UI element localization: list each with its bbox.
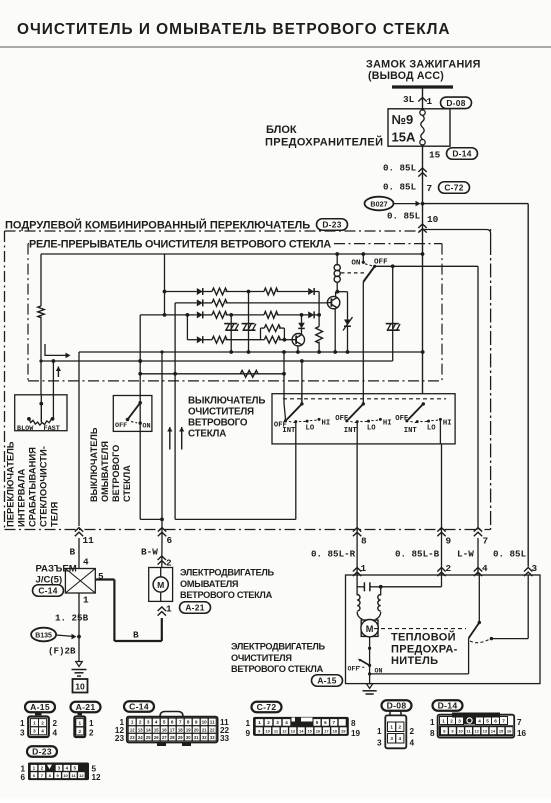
pin 1 JC wire [78, 593, 80, 662]
svg-text:16: 16 [162, 727, 167, 732]
svg-text:LO: LO [306, 425, 315, 433]
svg-text:FAST: FAST [44, 425, 60, 433]
svg-text:13: 13 [483, 729, 488, 734]
svg-text:D-23: D-23 [322, 220, 341, 230]
pole2 INT output wire to pin8 [356, 422, 358, 444]
svg-text:ЭЛЕКТРОДВИГАТЕЛЬ: ЭЛЕКТРОДВИГАТЕЛЬ [231, 642, 326, 652]
svg-text:15: 15 [429, 150, 441, 161]
svg-text:B: B [133, 630, 139, 641]
svg-text:1. 25B: 1. 25B [55, 613, 89, 624]
svg-text:D-23: D-23 [32, 747, 52, 757]
svg-text:A-21: A-21 [76, 702, 96, 712]
wire relay common down to pole2 [362, 282, 364, 404]
connector label D-23 header [317, 219, 348, 231]
svg-text:4: 4 [155, 720, 158, 725]
washer motor feed wire [161, 538, 163, 568]
row2 diode D3 [175, 302, 197, 304]
svg-text:17: 17 [324, 728, 329, 733]
svg-text:1: 1 [33, 720, 36, 725]
svg-text:5: 5 [316, 720, 319, 725]
arrow B135 to ground wire [56, 635, 73, 636]
svg-text:7: 7 [427, 183, 433, 194]
svg-text:2: 2 [53, 719, 58, 728]
svg-text:OFF: OFF [395, 415, 408, 423]
svg-text:12: 12 [92, 773, 102, 782]
row2 resistor R3 [203, 302, 212, 304]
svg-text:B135: B135 [35, 633, 52, 640]
title underline rule [0, 46, 551, 48]
svg-text:LO: LO [427, 425, 436, 433]
connector crossing chevrons pin10 [418, 224, 426, 228]
svg-text:10: 10 [202, 720, 208, 725]
svg-text:ВЫКЛЮЧАТЕЛЬ: ВЫКЛЮЧАТЕЛЬ [188, 396, 265, 407]
svg-text:33: 33 [210, 735, 215, 740]
svg-text:17: 17 [170, 727, 175, 732]
svg-text:L-W: L-W [457, 549, 474, 560]
wiper switch box [272, 394, 455, 444]
svg-text:32: 32 [202, 735, 207, 740]
svg-text:1: 1 [430, 718, 435, 727]
wiper switch pole 2 [362, 402, 365, 405]
svg-text:0. 85L-B: 0. 85L-B [395, 549, 440, 560]
thyristor ZD1 [347, 292, 349, 320]
svg-text:0. 85L: 0. 85L [493, 549, 527, 560]
svg-text:1: 1 [83, 595, 89, 606]
washer switch box [113, 396, 152, 432]
svg-text:8: 8 [430, 729, 435, 738]
wire branch right to wiper motor pin3 [423, 203, 529, 205]
svg-text:ОЧИСТИТЕЛЬ И ОМЫВАТЕЛЬ ВЕТРОВО: ОЧИСТИТЕЛЬ И ОМЫВАТЕЛЬ ВЕТРОВОГО СТЕКЛА [17, 21, 451, 38]
svg-text:10: 10 [75, 682, 85, 692]
svg-text:1: 1 [361, 563, 367, 574]
combination switch dash-dot box [5, 230, 423, 232]
svg-text:ОМЫВАТЕЛЯ: ОМЫВАТЕЛЯ [100, 441, 110, 502]
svg-text:15: 15 [307, 728, 312, 733]
wire left edge with resistor [40, 254, 42, 306]
svg-text:2: 2 [446, 563, 452, 574]
svg-text:6: 6 [20, 773, 25, 782]
row3-row4 vertical link [186, 315, 188, 340]
svg-text:OFF: OFF [374, 259, 388, 267]
svg-text:HI: HI [322, 419, 331, 427]
svg-text:ЭЛЕКТРОДВИГАТЕЛЬ: ЭЛЕКТРОДВИГАТЕЛЬ [180, 568, 275, 578]
svg-text:15А: 15А [392, 130, 416, 145]
resistor R6 vertical [316, 327, 323, 344]
svg-text:7: 7 [483, 536, 489, 547]
svg-text:0. 85L-R: 0. 85L-R [311, 549, 356, 560]
relay coil L1 [336, 254, 338, 266]
svg-text:1: 1 [427, 96, 433, 107]
svg-text:D-14: D-14 [438, 701, 458, 711]
wiper motor M [361, 620, 378, 636]
svg-text:5: 5 [163, 720, 166, 725]
wire ignition to fuse [422, 89, 424, 109]
svg-text:16: 16 [316, 728, 321, 733]
svg-text:ТЕЛЯ: ТЕЛЯ [49, 501, 60, 527]
svg-text:0. 85L: 0. 85L [383, 163, 417, 174]
svg-text:D-08: D-08 [387, 701, 407, 711]
svg-text:ВЫКЛЮЧАТЕЛЬ: ВЫКЛЮЧАТЕЛЬ [89, 427, 99, 502]
svg-text:РЕЛЕ-ПРЕРЫВАТЕЛЬ ОЧИСТИТЕЛЯ ВЕ: РЕЛЕ-ПРЕРЫВАТЕЛЬ ОЧИСТИТЕЛЯ ВЕТРОВОГО СТ… [29, 239, 331, 251]
svg-text:ВЕТРОВОГО СТЕКЛА: ВЕТРОВОГО СТЕКЛА [231, 664, 324, 674]
svg-text:19: 19 [186, 727, 191, 732]
svg-text:BLOW: BLOW [17, 425, 34, 433]
svg-text:3: 3 [458, 718, 461, 723]
INT loop wire [174, 303, 176, 520]
svg-text:СТЕКЛА: СТЕКЛА [122, 465, 132, 502]
svg-text:ВЕТРОВОГО СТЕКЛА: ВЕТРОВОГО СТЕКЛА [180, 590, 273, 600]
circuit box bottom ground bus [79, 351, 423, 353]
connector label D-14 mid [447, 148, 478, 160]
svg-text:3: 3 [147, 720, 150, 725]
parallel resistor pair R8 R9 [260, 328, 262, 340]
wire pin6 down [161, 519, 163, 538]
svg-text:4: 4 [285, 720, 288, 725]
svg-text:2: 2 [139, 720, 142, 725]
pin 9 crossing [437, 528, 445, 532]
svg-text:ОЧИСТИТЕЛЯ: ОЧИСТИТЕЛЯ [231, 653, 292, 663]
arrow B027 to junction [394, 203, 418, 205]
svg-text:ВЕТРОВОГО: ВЕТРОВОГО [188, 418, 248, 429]
capacitor C1 hatched [230, 315, 232, 352]
thermal arm to brush wire [468, 638, 470, 674]
svg-text:9: 9 [446, 536, 452, 547]
svg-text:ПОДРУЛЕВОЙ КОМБИНИРОВАННЫЙ ПЕР: ПОДРУЛЕВОЙ КОМБИНИРОВАННЫЙ ПЕРЕКЛЮЧАТЕЛЬ [5, 219, 310, 232]
junction dot main feed [421, 202, 425, 206]
svg-text:22: 22 [210, 727, 215, 732]
svg-text:9: 9 [195, 720, 198, 725]
svg-text:A-15: A-15 [30, 702, 50, 712]
svg-text:J/C(5): J/C(5) [36, 575, 63, 586]
svg-text:4: 4 [53, 729, 58, 738]
wire pole1 pivot feed [301, 361, 303, 404]
connector label C-72 mid [439, 182, 470, 194]
row1 resistor R1 [203, 291, 212, 293]
relay contact arm [363, 266, 374, 282]
washer switch arm [138, 401, 142, 405]
pin 1 connector crossing [418, 98, 426, 102]
svg-text:1: 1 [377, 727, 382, 736]
wire pin7 to motor pin4 [477, 538, 479, 575]
connector label D-08 top [441, 97, 472, 109]
svg-text:6: 6 [167, 535, 173, 546]
wiper switch gang dashed link [283, 398, 446, 400]
svg-text:4: 4 [66, 766, 69, 771]
svg-text:OFF: OFF [115, 422, 127, 430]
motor to park switch wire [369, 637, 371, 684]
svg-text:16: 16 [507, 729, 512, 734]
svg-text:ПРЕДОХРАНИТЕЛЕЙ: ПРЕДОХРАНИТЕЛЕЙ [265, 136, 383, 149]
svg-text:7: 7 [517, 718, 522, 727]
pot terminal2 wire [52, 361, 54, 395]
svg-text:B-W: B-W [141, 547, 158, 558]
svg-text:23: 23 [115, 734, 125, 743]
capacitor C2 hatched [248, 292, 250, 353]
svg-text:7: 7 [333, 720, 336, 725]
diode D7 above Q2 [301, 315, 303, 323]
svg-text:C-14: C-14 [129, 702, 149, 712]
wire INT right vertical [283, 352, 285, 394]
svg-text:3: 3 [20, 729, 25, 738]
svg-text:2: 2 [41, 720, 44, 725]
motor capacitor [356, 575, 358, 596]
wire right to motor pin3 [524, 568, 532, 572]
svg-text:14: 14 [491, 729, 496, 734]
svg-text:11: 11 [210, 720, 215, 725]
fuse element [420, 110, 425, 115]
transistor Q2 [292, 334, 304, 346]
direction arrow a [169, 427, 171, 450]
svg-text:ON: ON [351, 260, 361, 268]
row1 diode D1 [165, 291, 197, 293]
wire row feed vertical x164 [164, 254, 166, 315]
connector label A-15 text [312, 675, 343, 687]
svg-text:2: 2 [166, 558, 172, 569]
wire fuse down to junction [422, 146, 424, 231]
svg-text:1: 1 [166, 604, 172, 615]
svg-text:INT: INT [404, 427, 418, 435]
connector graphic D-23 [27, 746, 57, 757]
svg-text:(ВЫВОД АСС): (ВЫВОД АСС) [368, 70, 444, 82]
washer feed vertical from row3 [139, 315, 141, 403]
motor ground [366, 684, 373, 689]
svg-text:ПЕРЕКЛЮЧАТЕЛЬ: ПЕРЕКЛЮЧАТЕЛЬ [5, 441, 16, 527]
svg-text:C-72: C-72 [257, 702, 277, 712]
connector crossing chevrons a [418, 168, 426, 172]
wire pair to transistor Q2 base [284, 339, 292, 341]
svg-text:4: 4 [478, 718, 481, 723]
svg-text:A-21: A-21 [185, 603, 204, 613]
svg-text:20: 20 [194, 727, 199, 732]
washer ON output wire [139, 423, 141, 519]
svg-text:10: 10 [427, 214, 439, 225]
svg-text:8: 8 [187, 720, 190, 725]
svg-text:5: 5 [486, 718, 489, 723]
svg-text:СРАБАТЫВАНИЯ: СРАБАТЫВАНИЯ [27, 447, 38, 527]
svg-text:13: 13 [138, 727, 143, 732]
svg-text:6: 6 [324, 720, 327, 725]
interval switch box [15, 395, 67, 431]
row3 resistor R4 [203, 314, 212, 316]
svg-text:РАЗЪЕМ: РАЗЪЕМ [36, 564, 77, 575]
svg-text:1: 1 [33, 766, 36, 771]
svg-text:27: 27 [162, 735, 167, 740]
svg-text:HI: HI [383, 419, 392, 427]
svg-text:11: 11 [83, 535, 95, 546]
pin 7 crossing [474, 528, 482, 532]
pole1 INT output wire [295, 422, 297, 444]
motor coil left [357, 595, 360, 612]
svg-text:3: 3 [276, 720, 279, 725]
thermal link dashed to motor [374, 628, 466, 630]
svg-text:ИНТЕРВАЛА: ИНТЕРВАЛА [16, 468, 27, 527]
svg-text:INT: INT [282, 427, 296, 435]
svg-text:12: 12 [130, 727, 135, 732]
svg-text:OFF: OFF [348, 666, 360, 673]
svg-text:D-08: D-08 [446, 98, 465, 108]
svg-text:8: 8 [361, 536, 367, 547]
pot track zigzag [27, 417, 31, 421]
svg-text:1: 1 [245, 719, 250, 728]
pot wiper arrow [45, 344, 66, 355]
svg-text:7: 7 [179, 720, 182, 725]
wire row1-row3 junction down to resistor [318, 292, 320, 327]
svg-text:НИТЕЛЬ: НИТЕЛЬ [391, 655, 438, 667]
Q1 collector wire [335, 292, 337, 297]
svg-text:D-14: D-14 [452, 149, 471, 159]
svg-text:1: 1 [131, 720, 134, 725]
connector label A-21 text [180, 602, 211, 614]
svg-text:31: 31 [194, 735, 199, 740]
wire pin8 to motor pin1 [356, 538, 358, 575]
svg-text:14: 14 [146, 727, 151, 732]
direction arrow b [181, 427, 183, 450]
svg-text:33: 33 [220, 734, 230, 743]
svg-text:10: 10 [265, 728, 270, 733]
svg-text:М: М [366, 624, 374, 634]
fuse box №9 15A [388, 109, 450, 146]
svg-text:3: 3 [33, 729, 36, 734]
row2 wire to transistor base [226, 302, 328, 304]
svg-text:СТЕКЛА: СТЕКЛА [188, 429, 226, 440]
svg-text:16: 16 [517, 729, 527, 738]
svg-text:29: 29 [178, 735, 183, 740]
svg-text:B: B [70, 547, 76, 558]
wiper switch pole 1 [301, 394, 303, 404]
thermal breaker switch [478, 575, 480, 623]
svg-text:№9: №9 [392, 112, 414, 127]
wire pin9 to motor pin2 [441, 538, 443, 575]
svg-text:ВЕТРОВОГО: ВЕТРОВОГО [111, 445, 121, 502]
pin11 ground wire [78, 352, 80, 526]
svg-text:30: 30 [186, 735, 191, 740]
connector graphic D-08 [382, 700, 412, 711]
connector graphic C-14 [124, 701, 154, 712]
relay contact ON wire [362, 254, 364, 262]
svg-text:INT: INT [344, 427, 358, 435]
svg-text:М: М [157, 580, 164, 590]
svg-text:8: 8 [351, 719, 356, 728]
row3 resistor R5 [264, 312, 278, 319]
capacitor C3 hatched on OFF branch [392, 266, 394, 361]
motor coil right [380, 587, 382, 596]
pin 6 crossing [158, 528, 166, 532]
svg-text:2: 2 [450, 718, 453, 723]
wire OFF line right down to pin7 [477, 266, 479, 529]
ignition switch bar [392, 85, 453, 88]
svg-text:0. 85L: 0. 85L [387, 211, 421, 222]
svg-text:0. 85L: 0. 85L [383, 182, 417, 193]
svg-text:3L: 3L [403, 94, 415, 105]
wire ground bus to pin6 junction [161, 352, 163, 519]
transistor Q1 [327, 296, 339, 308]
svg-text:21: 21 [202, 727, 207, 732]
row1 resistor R2 [264, 288, 278, 295]
connector label C-14 jc [33, 585, 64, 597]
svg-text:4: 4 [410, 739, 415, 748]
circuit box top edge [41, 253, 423, 255]
svg-text:6: 6 [171, 720, 174, 725]
svg-text:1: 1 [79, 720, 82, 725]
connector graphic A-21 [71, 702, 101, 713]
svg-text:13: 13 [291, 728, 296, 733]
svg-text:12: 12 [475, 729, 480, 734]
svg-text:2: 2 [79, 729, 82, 734]
svg-text:2: 2 [267, 720, 270, 725]
earth point 10 box [73, 679, 88, 693]
svg-text:4: 4 [41, 729, 44, 734]
node B027 oval [365, 197, 394, 211]
svg-text:ОМЫВАТЕЛЯ: ОМЫВАТЕЛЯ [180, 579, 238, 589]
wire OFF contact to right [375, 265, 478, 267]
svg-text:LO: LO [367, 425, 376, 433]
svg-text:4: 4 [83, 557, 89, 568]
svg-text:1: 1 [390, 725, 393, 730]
row4 diode D6 [187, 339, 196, 341]
svg-text:ПРЕДОХРА-: ПРЕДОХРА- [391, 643, 458, 655]
connector graphic C-72 [252, 702, 282, 713]
svg-text:15: 15 [499, 729, 504, 734]
svg-text:1: 1 [442, 718, 445, 723]
svg-text:14: 14 [299, 728, 304, 733]
relay dash-dot box [28, 243, 29, 245]
wire motor pin3 internal [527, 575, 529, 639]
svg-text:3: 3 [58, 766, 61, 771]
wiper motor box [346, 575, 541, 684]
svg-text:2: 2 [399, 725, 402, 730]
Q1 emitter wire [334, 308, 336, 352]
svg-text:ТЕПЛОВОЙ: ТЕПЛОВОЙ [391, 631, 456, 644]
svg-text:ON: ON [142, 423, 150, 431]
svg-text:4: 4 [482, 563, 488, 574]
row4 resistor R7 [203, 339, 212, 341]
svg-text:15: 15 [154, 727, 159, 732]
pole1 OFF feed wire [283, 394, 285, 404]
svg-text:4: 4 [399, 736, 402, 741]
svg-text:19: 19 [351, 729, 361, 738]
svg-text:C-72: C-72 [444, 183, 463, 193]
svg-text:A-15: A-15 [317, 676, 336, 686]
wire motor pin2 internal [441, 575, 443, 587]
park switch OFF ON [368, 664, 371, 667]
svg-text:10: 10 [63, 773, 68, 778]
svg-text:СТЕКЛООЧИСТИ-: СТЕКЛООЧИСТИ- [38, 446, 49, 527]
INT line y374 [140, 373, 284, 375]
main feed wire vertical right [422, 231, 424, 394]
svg-text:18: 18 [333, 728, 338, 733]
svg-text:28: 28 [170, 735, 175, 740]
svg-text:25: 25 [146, 735, 151, 740]
pot wiper arm [39, 402, 43, 406]
direction arrow small left [57, 367, 59, 378]
svg-text:3: 3 [390, 736, 393, 741]
ground symbol left [76, 662, 83, 667]
svg-text:ОЧИСТИТЕЛЯ: ОЧИСТИТЕЛЯ [188, 407, 254, 418]
svg-text:3: 3 [377, 739, 382, 748]
relay coil link dashed [341, 272, 364, 274]
pole3 HI output wire to pin9 [439, 419, 441, 444]
svg-text:12: 12 [79, 773, 84, 778]
svg-text:6: 6 [494, 718, 497, 723]
svg-text:3: 3 [532, 563, 538, 574]
svg-text:1: 1 [20, 719, 25, 728]
svg-text:B027: B027 [370, 200, 387, 209]
junction connector J/C box [65, 569, 95, 594]
svg-text:19: 19 [341, 728, 346, 733]
svg-text:1: 1 [258, 720, 261, 725]
svg-text:ЗАМОК ЗАЖИГАНИЯ: ЗАМОК ЗАЖИГАНИЯ [366, 59, 481, 71]
bus horizontal y361 [41, 360, 393, 362]
